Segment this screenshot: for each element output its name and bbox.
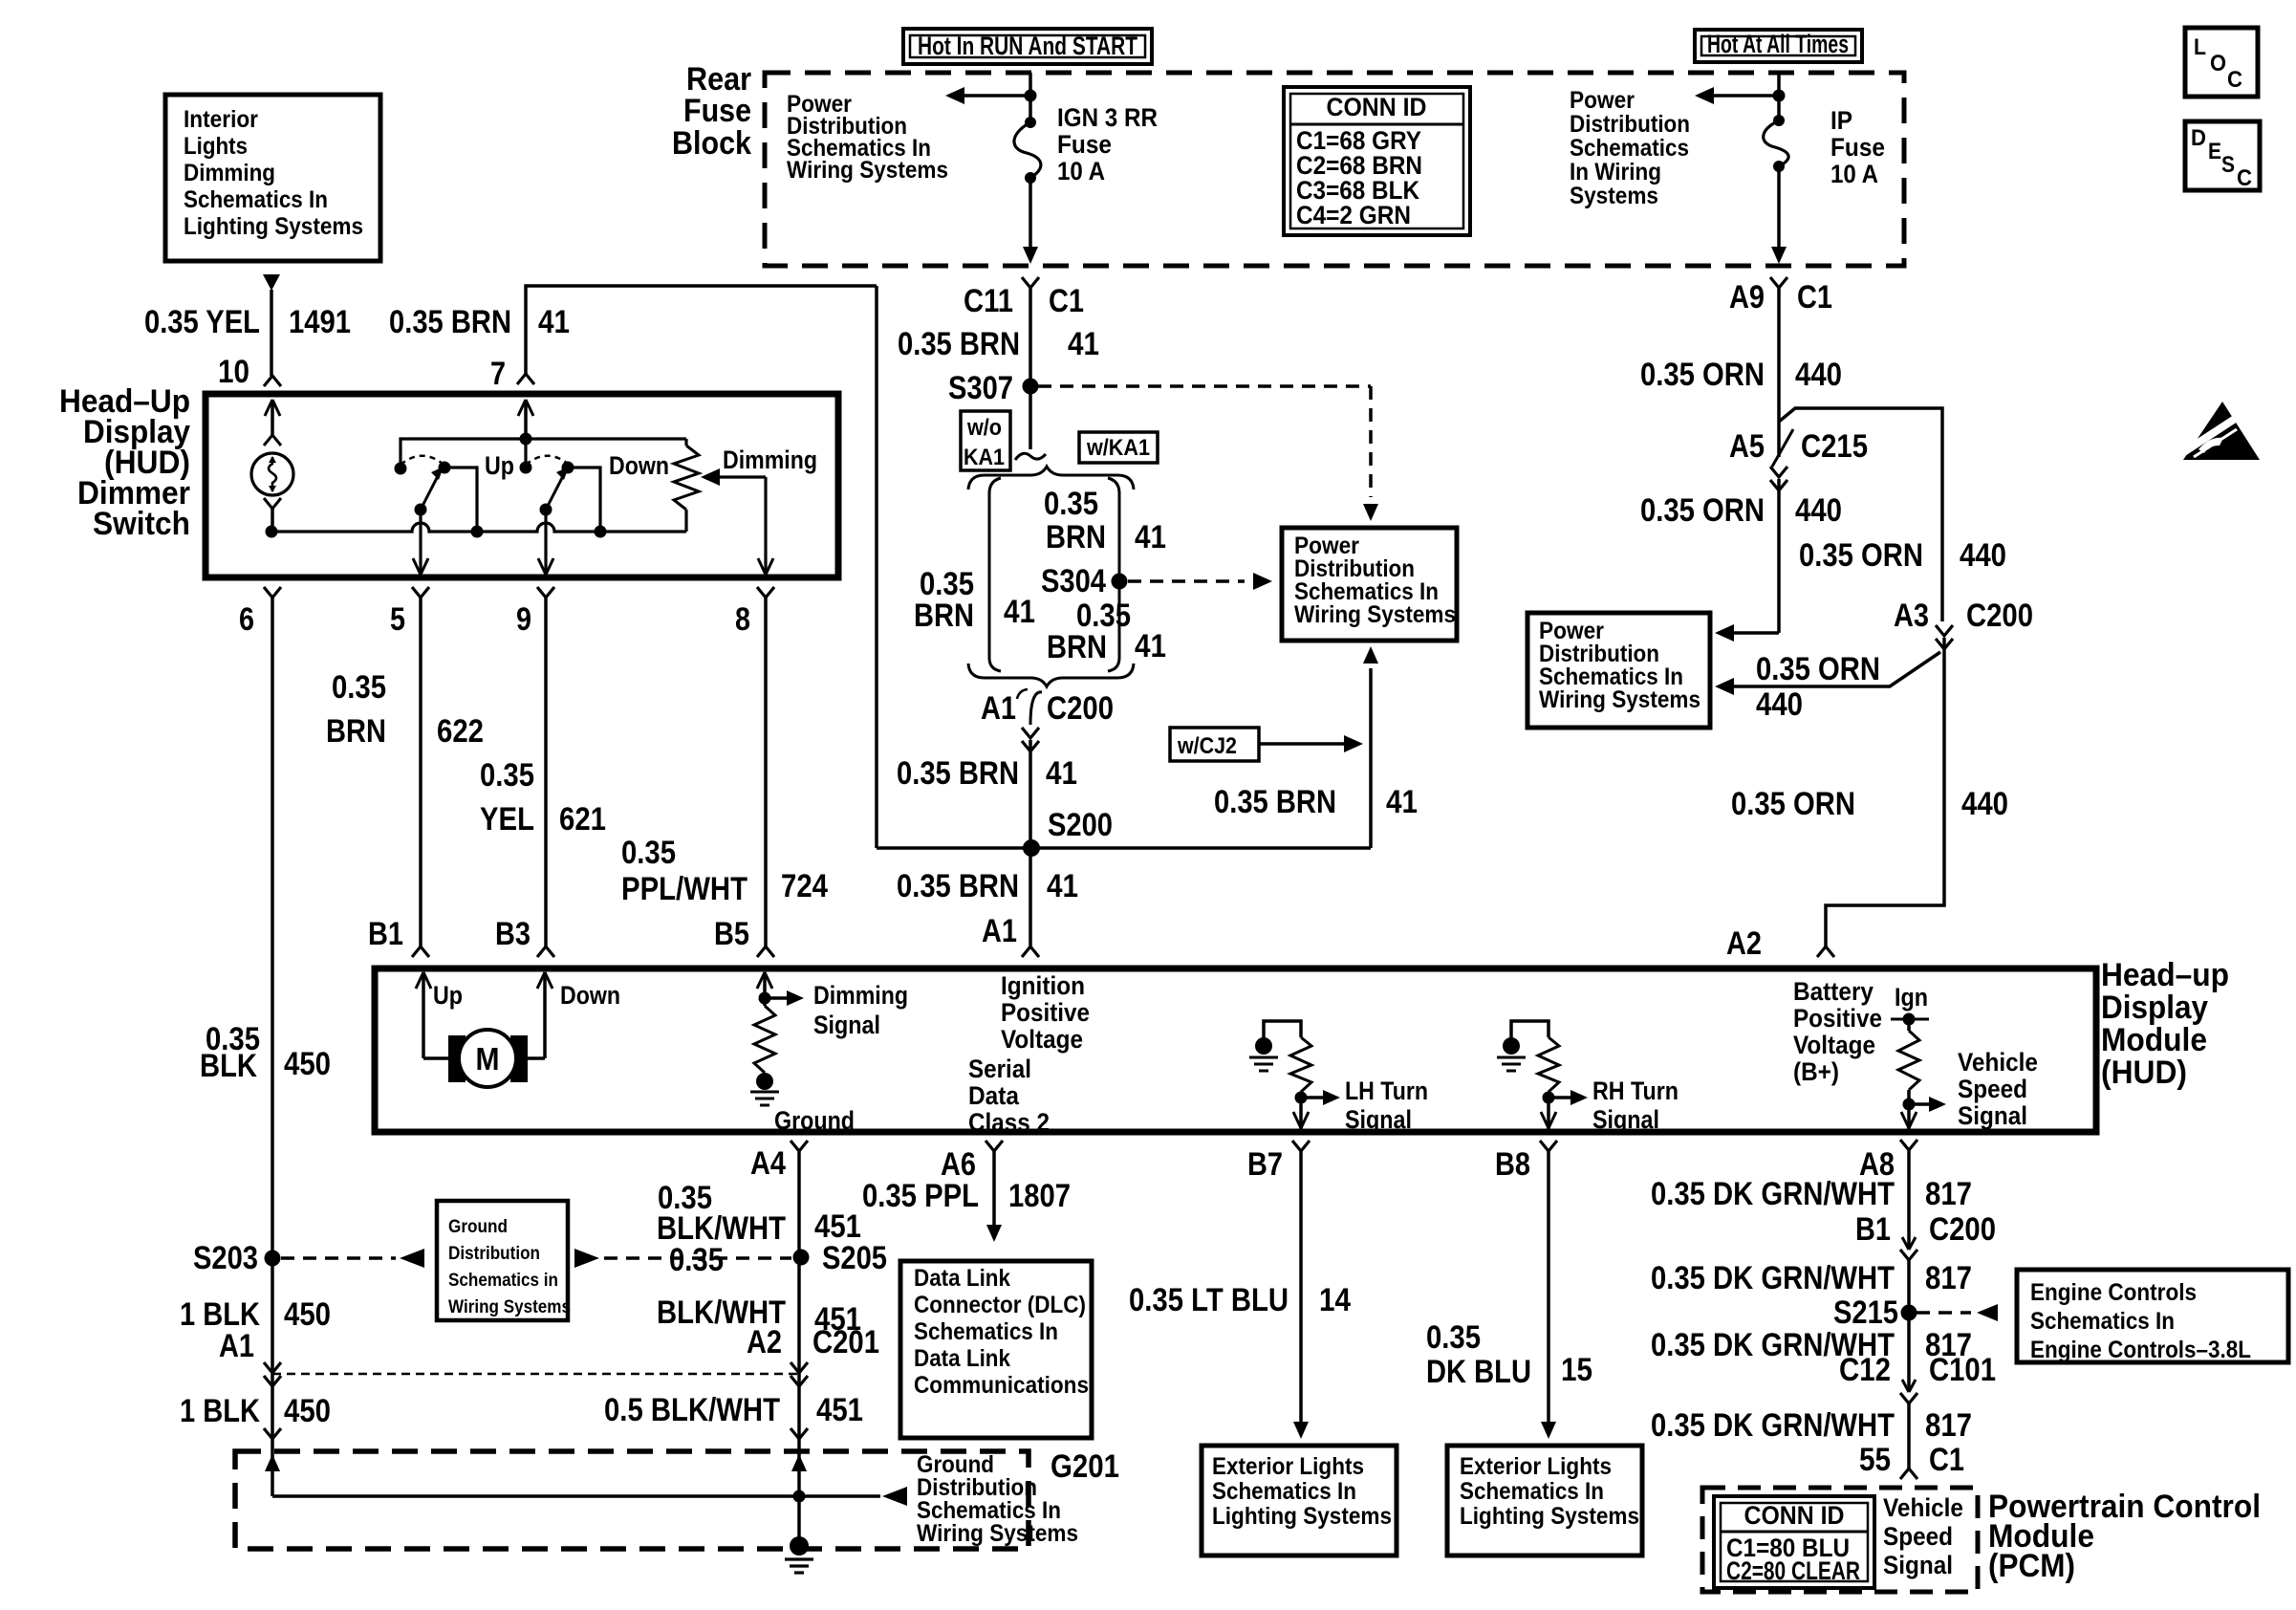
label LH Turn Signal xyxy=(1345,1077,1428,1134)
connector slash C215 xyxy=(1772,429,1793,467)
label 0.35 YEL (621) xyxy=(480,757,534,838)
arrow into Interior Lights box xyxy=(263,274,280,291)
connector fork PCM pin 55 xyxy=(1900,1469,1917,1479)
svg-text:0.35: 0.35 xyxy=(621,835,676,871)
svg-text:(B+): (B+) xyxy=(1793,1057,1839,1086)
svg-text:41: 41 xyxy=(1135,519,1166,555)
ground box G201 dashed xyxy=(235,1451,1029,1549)
svg-text:Signal: Signal xyxy=(813,1011,880,1039)
svg-text:Wiring Systems: Wiring Systems xyxy=(787,157,948,184)
label Battery Positive Voltage (B+) xyxy=(1793,977,1882,1086)
splice S200 xyxy=(1023,839,1040,857)
svg-text:Signal: Signal xyxy=(1592,1105,1659,1134)
reference text Ground Distribution (G201) xyxy=(917,1451,1078,1547)
svg-text:Positive: Positive xyxy=(1001,998,1090,1027)
svg-text:0.35 LT BLU: 0.35 LT BLU xyxy=(1129,1282,1289,1318)
arrowhead w/CJ2 xyxy=(1344,735,1363,752)
svg-text:Fuse: Fuse xyxy=(1057,130,1112,159)
pin label A3 xyxy=(1894,598,1929,634)
label 0.35 BRN (622) xyxy=(326,669,386,750)
svg-text:C1: C1 xyxy=(1049,283,1084,319)
label 440 (below C215) xyxy=(1795,492,1842,529)
dashed throw arc Down xyxy=(526,456,568,465)
table CONN ID rear fuse block xyxy=(1284,87,1470,235)
svg-text:Block: Block xyxy=(672,125,751,162)
dashed throw arc Up xyxy=(401,456,443,465)
wire 0.35 PPL/WHT 724 pin8 to B5 xyxy=(764,598,768,946)
pin label C200 (PCM col) xyxy=(1929,1211,1996,1248)
svg-text:C: C xyxy=(2227,67,2242,93)
wire 0.35 BRN 41 to S200 xyxy=(1029,740,1032,848)
wire 0.35 YEL 621 pin9 to B3 xyxy=(544,598,548,946)
wire vehicle speed signal arrow xyxy=(1909,1097,1946,1112)
label 621 xyxy=(559,801,606,838)
brace top of KA1 alternatives xyxy=(968,467,1134,490)
ground symbol B8 xyxy=(1497,1057,1526,1071)
label 0.5 BLK/WHT xyxy=(604,1392,780,1428)
label 451 (0.5) xyxy=(816,1392,863,1428)
svg-text:BRN: BRN xyxy=(1047,629,1107,665)
wire B7 to pin xyxy=(1293,1092,1309,1129)
component name Rear Fuse Block xyxy=(672,61,751,162)
label 440 (second feed) xyxy=(1756,686,1803,723)
arrowhead at rear fuse block edge xyxy=(1023,247,1038,264)
reference box Power Distribution (right) xyxy=(1527,613,1710,728)
label 0.35 BRN (S200 branch) xyxy=(1214,784,1336,820)
label 0.35 BLK/WHT (below S205) xyxy=(657,1242,786,1331)
label 1 BLK 450 (below A1) xyxy=(180,1393,331,1429)
label Down (module) xyxy=(560,981,620,1010)
pin label C200 (A3) xyxy=(1966,598,2033,634)
pin label C11 xyxy=(964,283,1013,319)
branch wire w/o KA1 (left) xyxy=(989,478,1001,671)
label 14 xyxy=(1319,1282,1351,1318)
svg-text:Schematics: Schematics xyxy=(1570,135,1689,162)
terminal arrow G201 left xyxy=(265,1454,280,1471)
svg-text:IP: IP xyxy=(1830,106,1852,135)
label 0.35 PPL/WHT xyxy=(621,835,747,907)
pin label B1 (C200) xyxy=(1855,1211,1891,1248)
svg-text:5: 5 xyxy=(390,601,405,638)
wire branch to A3 C200 xyxy=(1779,408,1942,621)
svg-text:0.35 BRN: 0.35 BRN xyxy=(389,304,511,340)
svg-text:Connector (DLC): Connector (DLC) xyxy=(914,1292,1086,1318)
svg-text:724: 724 xyxy=(781,868,828,904)
ESD warning symbol xyxy=(2182,402,2260,460)
svg-text:Wiring Systems: Wiring Systems xyxy=(917,1520,1078,1547)
wire 0.35 DK GRN/WHT 817 segment 2 xyxy=(1907,1260,1911,1392)
wire into power distribution right box xyxy=(1728,631,1779,635)
svg-text:6: 6 xyxy=(239,601,254,638)
svg-text:Fuse: Fuse xyxy=(1830,133,1885,162)
wire to power distribution left (IP) xyxy=(1713,94,1779,98)
reference box Data Link Connector xyxy=(900,1261,1092,1438)
label 817 (4) xyxy=(1925,1407,1972,1444)
wire 0.35 DK BLU 15 xyxy=(1547,1151,1550,1424)
svg-text:Hot In RUN And START: Hot In RUN And START xyxy=(918,32,1137,60)
wire Up contact to common xyxy=(444,468,477,532)
label 0.35 DK BLU xyxy=(1426,1319,1531,1390)
wire Down contact to common xyxy=(568,468,600,532)
pin number 9 xyxy=(516,601,531,638)
svg-text:0.35: 0.35 xyxy=(669,1242,724,1278)
branch wire w/KA1 (right) xyxy=(1108,478,1119,671)
svg-text:Schematics In: Schematics In xyxy=(1460,1478,1604,1505)
svg-text:621: 621 xyxy=(559,801,606,838)
label 0.35 BRN 41 (left branch) xyxy=(914,566,1035,634)
svg-text:(PCM): (PCM) xyxy=(1988,1548,2075,1584)
pin number 6 xyxy=(239,601,254,638)
connector fork pin 6 xyxy=(264,587,281,598)
wire 0.35 DK GRN/WHT 817 segment 3 xyxy=(1907,1403,1911,1469)
junction dot on IP feed xyxy=(1773,90,1786,102)
wire 0.35 BRN 41 S200 to module A1 xyxy=(1029,848,1032,946)
svg-text:10 A: 10 A xyxy=(1057,157,1105,185)
pivot dot Up xyxy=(415,504,427,516)
svg-text:0.35 BRN: 0.35 BRN xyxy=(1214,784,1336,820)
svg-text:C4=2 GRN: C4=2 GRN xyxy=(1296,201,1411,229)
splice S215 xyxy=(1901,1305,1917,1321)
svg-text:0.35 DK GRN/WHT: 0.35 DK GRN/WHT xyxy=(1651,1260,1895,1296)
reference box Power Distribution (center) xyxy=(1282,528,1457,641)
svg-text:A1: A1 xyxy=(982,913,1017,949)
wire 0.35 ORN 440 below C215 xyxy=(1777,479,1781,633)
pin label 55 xyxy=(1859,1442,1891,1478)
wire IGN3 feed stub xyxy=(1029,73,1032,122)
svg-text:Lights: Lights xyxy=(184,133,248,160)
ignition rail bar xyxy=(1891,1013,1929,1026)
pin label A5 xyxy=(1729,428,1765,465)
ground symbol B7 xyxy=(1249,1057,1278,1071)
reference box Ground Distribution xyxy=(437,1201,571,1320)
svg-text:B8: B8 xyxy=(1495,1146,1530,1183)
dashed splice line S307 to power distribution box xyxy=(1038,386,1371,497)
svg-text:B7: B7 xyxy=(1247,1146,1283,1183)
label S203 xyxy=(193,1240,258,1276)
wire 0.35 BRN 622 pin5 to B1 xyxy=(419,598,422,946)
svg-text:Hot At All Times: Hot At All Times xyxy=(1707,30,1849,58)
svg-text:Ignition: Ignition xyxy=(1001,971,1085,1000)
arrowhead ground distribution reference G201 xyxy=(882,1487,907,1506)
connector fork at dimmer switch pin 10 xyxy=(264,376,281,386)
chevron A2 wire into G201 xyxy=(791,1428,808,1439)
svg-text:S200: S200 xyxy=(1048,807,1113,843)
lamp dimmer switch illumination xyxy=(251,453,293,495)
svg-text:Vehicle: Vehicle xyxy=(1958,1048,2038,1077)
svg-text:E: E xyxy=(2208,139,2221,164)
svg-text:C1: C1 xyxy=(1929,1442,1964,1478)
svg-text:KA1: KA1 xyxy=(964,445,1005,470)
svg-text:C: C xyxy=(2237,165,2252,191)
ground dot B8 xyxy=(1503,1037,1520,1055)
pin number 5 xyxy=(390,601,405,638)
wire end curl at KA1 split xyxy=(1015,453,1046,460)
svg-text:Signal: Signal xyxy=(1958,1101,2027,1130)
svg-text:Power: Power xyxy=(1570,87,1635,114)
pin label C201 xyxy=(812,1324,879,1360)
svg-text:B1: B1 xyxy=(1855,1211,1891,1248)
label 817 (3) xyxy=(1925,1327,1972,1363)
label 0.35 BRN (below C1) xyxy=(898,326,1020,362)
switch arm Up xyxy=(421,467,444,510)
callout box w/CJ2 xyxy=(1170,728,1259,761)
pin label A4 xyxy=(750,1145,786,1182)
connector fork module pin B1 xyxy=(412,946,429,957)
callout box w/KA1 xyxy=(1079,432,1158,463)
junction dot B7 xyxy=(1295,1092,1308,1104)
svg-text:55: 55 xyxy=(1859,1442,1891,1478)
svg-text:C200: C200 xyxy=(1929,1211,1996,1248)
label 0.35 DK GRN/WHT (1) xyxy=(1651,1176,1895,1212)
svg-text:0.35 BRN: 0.35 BRN xyxy=(898,326,1020,362)
wire 0.35 BRN 41 from C1 to S307 xyxy=(1029,288,1032,449)
label Up xyxy=(485,451,514,480)
pin label A2 xyxy=(1726,925,1762,962)
connector fork pin 9 xyxy=(537,587,554,598)
svg-text:S304: S304 xyxy=(1041,563,1106,599)
label 440 (to A2) xyxy=(1961,786,2008,822)
resistor dimming potentiometer xyxy=(674,439,699,532)
wire from w/CJ2 box xyxy=(1259,742,1344,746)
pin label A6 xyxy=(941,1146,976,1183)
svg-text:RH Turn: RH Turn xyxy=(1592,1077,1679,1105)
connector fork module pin A1 xyxy=(1022,946,1039,957)
svg-text:B3: B3 xyxy=(495,916,531,952)
label 440 (A9) xyxy=(1795,357,1842,393)
pin label A8 xyxy=(1859,1146,1895,1183)
label 41 (below S200) xyxy=(1047,868,1078,904)
label Ignition Positive Voltage xyxy=(1001,971,1090,1054)
title box Hot In RUN And START xyxy=(903,29,1152,64)
svg-text:41: 41 xyxy=(538,304,570,340)
label 451 (below S205) xyxy=(814,1301,861,1338)
svg-text:0.35: 0.35 xyxy=(1426,1319,1481,1356)
connector fork pin A6 xyxy=(986,1141,1003,1151)
svg-text:S215: S215 xyxy=(1833,1295,1898,1331)
svg-text:A1: A1 xyxy=(219,1328,254,1364)
pin label A1 (module) xyxy=(982,913,1017,949)
svg-text:B1: B1 xyxy=(368,916,403,952)
pin label C101 xyxy=(1929,1352,1996,1388)
splice S307 xyxy=(1023,379,1039,395)
svg-text:Lighting Systems: Lighting Systems xyxy=(1212,1503,1392,1530)
svg-text:Systems: Systems xyxy=(1570,183,1658,209)
svg-text:Fuse: Fuse xyxy=(683,93,751,129)
label Ground (pin A4) xyxy=(774,1106,855,1135)
svg-text:622: 622 xyxy=(437,713,484,750)
wire lamp to common xyxy=(271,509,274,532)
label S200 xyxy=(1048,807,1113,843)
wire 0.35 BLK 450 pin6 down xyxy=(271,598,274,1254)
reference box Interior Lights Dimming xyxy=(165,95,380,261)
svg-text:41: 41 xyxy=(1068,326,1099,362)
svg-text:Up: Up xyxy=(485,451,514,480)
wire B8 to pin xyxy=(1541,1092,1556,1129)
svg-text:0.5 BLK/WHT: 0.5 BLK/WHT xyxy=(604,1392,780,1428)
legend box LOC xyxy=(2185,28,2258,97)
pin label A9 xyxy=(1729,279,1765,315)
svg-text:Schematics in: Schematics in xyxy=(448,1271,558,1291)
component box Powertrain Control Module dashed xyxy=(1702,1488,1978,1592)
svg-text:IGN 3 RR: IGN 3 RR xyxy=(1057,103,1158,132)
label 0.35 BRN 41 (right branch lower) xyxy=(1047,598,1166,665)
svg-text:Display: Display xyxy=(2101,990,2208,1026)
pin label A1 (C200) xyxy=(981,690,1016,727)
connector fork pin B7 xyxy=(1292,1141,1310,1151)
pin number 8 xyxy=(735,601,750,638)
label 0.35 BLK (450) xyxy=(200,1021,260,1084)
dashed splice line to S205 xyxy=(604,1256,791,1260)
arrowhead S304 to power distribution box xyxy=(1253,573,1272,590)
svg-text:450: 450 xyxy=(284,1296,331,1333)
resistor B8 RH turn xyxy=(1538,1037,1559,1092)
label Ign xyxy=(1895,983,1928,1012)
chevron below lamp xyxy=(264,498,281,509)
table CONN ID PCM xyxy=(1714,1496,1874,1588)
svg-text:Data Link: Data Link xyxy=(914,1265,1010,1292)
svg-text:Wiring Systems: Wiring Systems xyxy=(1539,686,1700,713)
pin label C200 xyxy=(1047,690,1114,727)
connector B1 C200 inline xyxy=(1900,1237,1917,1260)
svg-text:41: 41 xyxy=(1046,755,1077,792)
title box Hot At All Times xyxy=(1695,30,1862,62)
label 0.35 DK GRN/WHT (4) xyxy=(1651,1407,1895,1444)
label Serial Data Class 2 xyxy=(968,1055,1050,1137)
label 0.35 ORN (below C215) xyxy=(1640,492,1765,529)
label S307 xyxy=(948,370,1013,406)
svg-text:Data Link: Data Link xyxy=(914,1345,1010,1372)
svg-text:Ign: Ign xyxy=(1895,983,1928,1012)
svg-text:A2: A2 xyxy=(1726,925,1762,962)
svg-text:Engine Controls–3.8L: Engine Controls–3.8L xyxy=(2030,1337,2251,1363)
component box Head-up Display Module (HUD) xyxy=(375,968,2096,1132)
svg-text:0.35 ORN: 0.35 ORN xyxy=(1640,492,1765,529)
svg-text:0.35: 0.35 xyxy=(480,757,534,794)
arrowhead into power distribution box bottom xyxy=(1363,646,1378,664)
wire IP fuse output to C1 xyxy=(1777,166,1781,247)
wire 0.35 DK GRN/WHT 817 segment 1 xyxy=(1907,1150,1911,1250)
svg-text:PPL/WHT: PPL/WHT xyxy=(621,871,747,907)
wire to power distribution (left arrow) xyxy=(964,94,1030,98)
svg-text:0.35 DK GRN/WHT: 0.35 DK GRN/WHT xyxy=(1651,1176,1895,1212)
label S215 xyxy=(1833,1295,1898,1331)
splice S205 xyxy=(793,1250,810,1266)
label Vehicle Speed Signal xyxy=(1958,1048,2038,1130)
svg-text:M: M xyxy=(476,1041,500,1077)
svg-text:Positive: Positive xyxy=(1793,1004,1882,1033)
wire A8 to pin xyxy=(1901,1104,1917,1129)
wire loop B8 resistor to ground dot xyxy=(1511,1021,1549,1038)
connector fork pin 5 xyxy=(412,587,429,598)
svg-text:BRN: BRN xyxy=(326,713,386,750)
svg-text:14: 14 xyxy=(1319,1282,1351,1318)
svg-text:9: 9 xyxy=(516,601,531,638)
svg-text:817: 817 xyxy=(1925,1260,1972,1296)
resistor B5 to ground xyxy=(754,1006,775,1073)
label 0.35 BRN (above S200) xyxy=(897,755,1019,792)
svg-text:BRN: BRN xyxy=(1046,519,1106,555)
label IP Fuse 10 A xyxy=(1830,106,1885,188)
terminal arrow B3 inside xyxy=(537,972,552,1058)
legend box DESC xyxy=(2185,121,2260,191)
svg-text:C12: C12 xyxy=(1839,1352,1891,1388)
wire pin 7 to elbow xyxy=(526,286,877,374)
label 0.35 BRN (below S200) xyxy=(897,868,1019,904)
svg-text:Switch: Switch xyxy=(93,506,190,542)
arrowhead power distribution left xyxy=(945,87,964,104)
svg-text:Schematics In: Schematics In xyxy=(2030,1308,2175,1335)
svg-text:Up: Up xyxy=(433,981,463,1010)
pin label C215 xyxy=(1801,428,1868,465)
svg-text:w/CJ2: w/CJ2 xyxy=(1177,733,1237,759)
wire wiper to pin 8 xyxy=(758,477,773,575)
svg-text:0.35: 0.35 xyxy=(332,669,386,706)
svg-text:Distribution: Distribution xyxy=(1570,111,1690,138)
junction dot Down contact common xyxy=(595,526,607,538)
svg-text:A5: A5 xyxy=(1729,428,1765,465)
svg-text:YEL: YEL xyxy=(480,801,534,838)
ground dot B5 xyxy=(756,1073,773,1090)
wire loop B7 resistor to ground dot xyxy=(1264,1021,1301,1038)
wire second feed into power dist right box xyxy=(1728,652,1940,686)
wire LH turn signal arrow xyxy=(1301,1090,1340,1105)
fuse IP 10A xyxy=(1764,115,1788,172)
label 41 (below C1) xyxy=(1068,326,1099,362)
svg-text:DK BLU: DK BLU xyxy=(1426,1354,1531,1390)
svg-text:C2=80 CLEAR: C2=80 CLEAR xyxy=(1726,1556,1860,1585)
svg-text:A1: A1 xyxy=(981,690,1016,727)
svg-text:1807: 1807 xyxy=(1008,1178,1071,1214)
motor M HUD position xyxy=(423,1030,545,1087)
svg-text:CONN ID: CONN ID xyxy=(1744,1501,1845,1530)
junction dot G201 xyxy=(793,1490,806,1503)
svg-text:451: 451 xyxy=(816,1392,863,1428)
connector fork C215 double xyxy=(1770,467,1787,490)
label S304 xyxy=(1041,563,1106,599)
svg-text:O: O xyxy=(2210,51,2226,76)
arrowhead S205 reference xyxy=(574,1249,599,1268)
svg-text:Schematics In: Schematics In xyxy=(1212,1478,1356,1505)
svg-text:Down: Down xyxy=(560,981,620,1010)
svg-text:41: 41 xyxy=(1386,784,1418,820)
svg-text:Battery: Battery xyxy=(1793,977,1874,1006)
svg-text:Class 2: Class 2 xyxy=(968,1108,1050,1137)
arrowhead into power distribution right box xyxy=(1715,624,1734,642)
switch common line with humps xyxy=(271,523,686,532)
connector fork C201 left double xyxy=(264,1362,281,1386)
svg-text:D: D xyxy=(2191,125,2206,151)
wire IP feed stub xyxy=(1777,73,1781,120)
svg-text:Dimming: Dimming xyxy=(723,446,817,474)
switch top feed line xyxy=(401,439,686,468)
contact dot Down left xyxy=(520,462,532,474)
label 0.35 ORN (to A2) xyxy=(1731,786,1855,822)
contact dot Up left xyxy=(395,463,407,475)
wire S200 horizontal run xyxy=(877,846,1371,850)
svg-text:Vehicle: Vehicle xyxy=(1883,1493,1963,1522)
pin label B7 xyxy=(1247,1146,1283,1183)
svg-text:1491: 1491 xyxy=(289,304,351,340)
svg-text:817: 817 xyxy=(1925,1176,1972,1212)
pin label B3 xyxy=(495,916,531,952)
svg-text:440: 440 xyxy=(1795,492,1842,529)
wire ground bus G201 xyxy=(272,1494,880,1498)
potentiometer wiper arrow xyxy=(701,468,766,486)
svg-text:Dimming: Dimming xyxy=(184,160,275,186)
svg-text:0.35 ORN: 0.35 ORN xyxy=(1799,537,1923,574)
resistor Ign to VSS xyxy=(1898,1019,1919,1104)
connector symbol A1 C200 xyxy=(1017,689,1042,725)
